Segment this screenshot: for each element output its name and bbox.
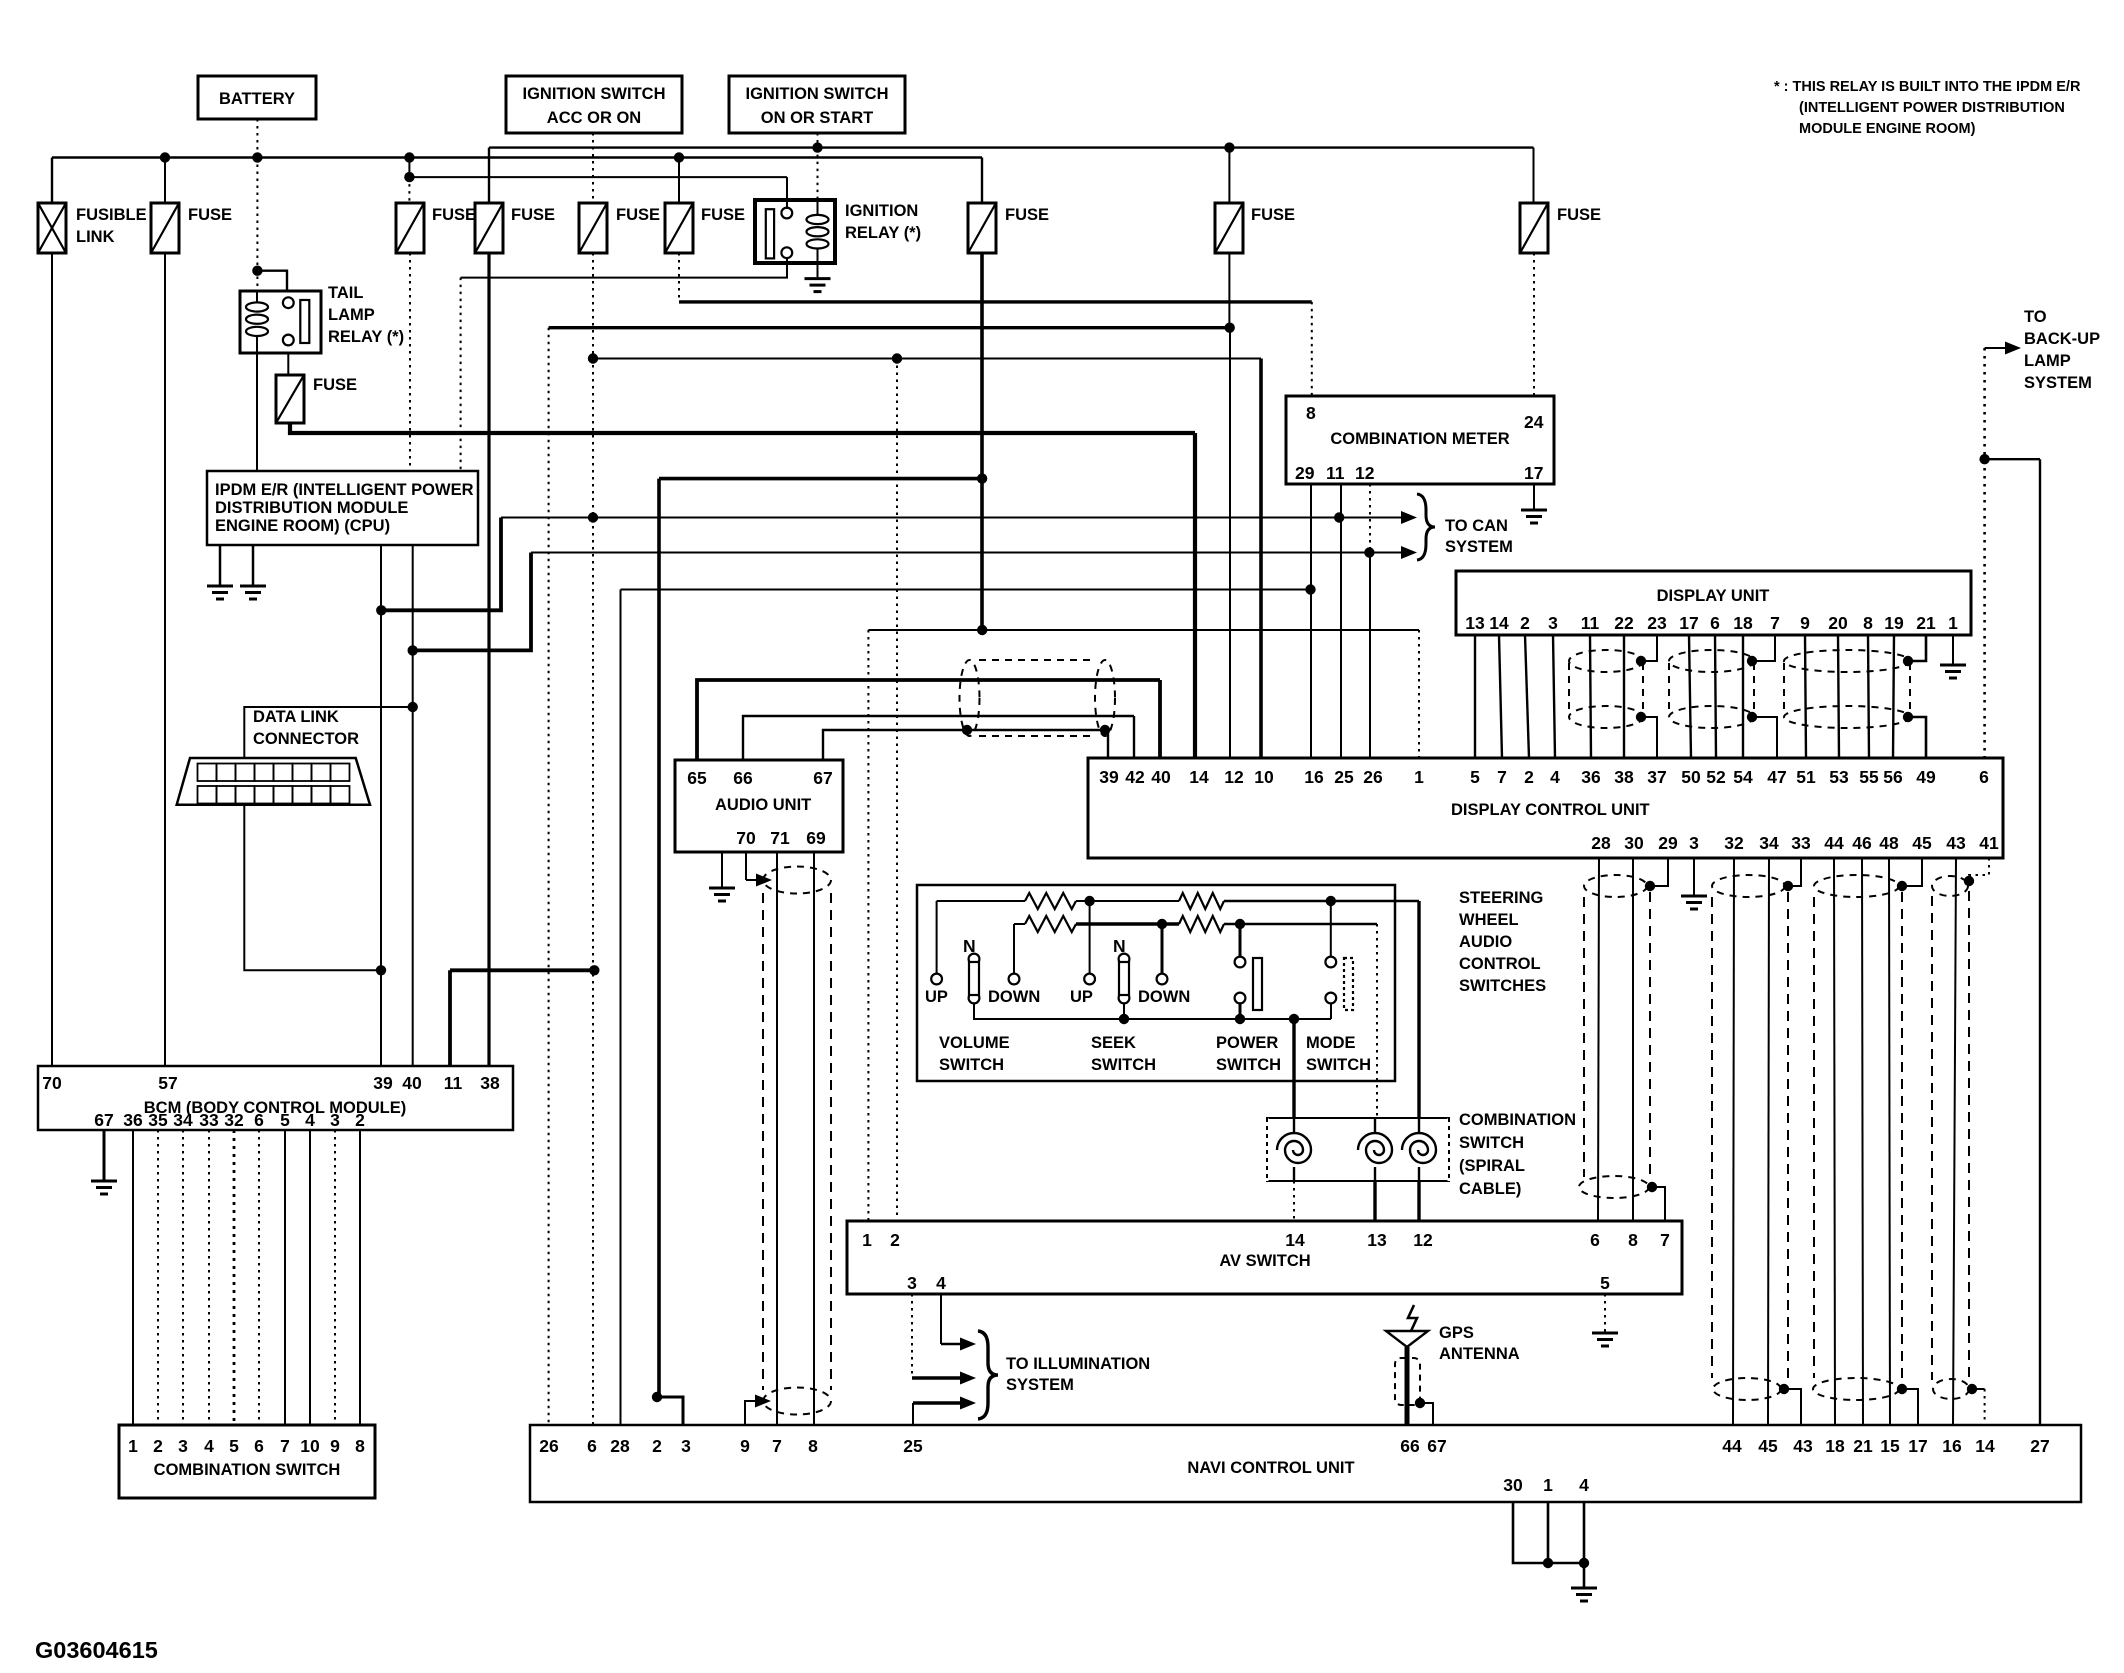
- spiral1 top stub: [1293, 1118, 1295, 1133]
- wire audio unit to ground: [721, 852, 723, 887]
- svg-text:LAMP: LAMP: [2024, 352, 2071, 370]
- svg-text:12: 12: [1355, 463, 1375, 483]
- shield dashed right audio pair: [830, 893, 832, 1390]
- line C: F7 to NAVI 26 run: [549, 326, 1230, 329]
- wire meter 17 to ground: [1533, 484, 1535, 509]
- svg-text:39: 39: [1099, 767, 1119, 787]
- svg-text:13: 13: [1367, 1230, 1387, 1250]
- shield dashed pair g4 left: [1931, 896, 1933, 1380]
- dotted wire backup to DCU pin 6: [1983, 348, 1986, 758]
- wire DCU 46 to NAVI 21: [1862, 858, 1863, 1425]
- svg-text:26: 26: [1363, 767, 1383, 787]
- svg-text:14: 14: [1975, 1436, 1995, 1456]
- svg-text:22: 22: [1614, 613, 1634, 633]
- svg-text:DOWN: DOWN: [1138, 988, 1190, 1006]
- ground below ignition relay: [805, 279, 831, 292]
- svg-text:FUSE: FUSE: [511, 206, 555, 224]
- wire tail relay contact to fuse: [287, 353, 289, 375]
- thick wire down to spiral cable 3: [1417, 901, 1420, 1118]
- svg-text:32: 32: [1724, 833, 1744, 853]
- svg-text:SWITCH: SWITCH: [1091, 1056, 1156, 1074]
- wire DCU 3 to ground: [1693, 858, 1695, 895]
- svg-text:45: 45: [1758, 1436, 1778, 1456]
- svg-text:FUSE: FUSE: [1005, 206, 1049, 224]
- svg-text:SWITCH: SWITCH: [1216, 1056, 1281, 1074]
- svg-text:7: 7: [1497, 767, 1507, 787]
- svg-text:17: 17: [1679, 613, 1698, 633]
- svg-text:28: 28: [1591, 833, 1611, 853]
- svg-text:NAVI CONTROL UNIT: NAVI CONTROL UNIT: [1187, 1459, 1354, 1477]
- wire bus to fusible link: [51, 158, 53, 204]
- svg-text:43: 43: [1793, 1436, 1813, 1456]
- GPS shield dashed box: [1395, 1358, 1420, 1405]
- bus line y148 (ignition ON/START feed): [489, 146, 1534, 148]
- wire meter 12 (dotted): [1369, 484, 1371, 553]
- thick wire down to DCU pin 10: [1259, 359, 1263, 759]
- fuse F6: [968, 203, 996, 253]
- svg-text:42: 42: [1125, 767, 1145, 787]
- wire FL to BCM pin 70: [51, 253, 53, 1066]
- svg-text:1: 1: [862, 1230, 872, 1250]
- svg-text:CONNECTOR: CONNECTOR: [253, 730, 359, 748]
- wire relay contact to y177 line: [786, 177, 788, 209]
- wire display 17 to DCU: [1689, 635, 1691, 758]
- wire DCU 34 to NAVI 45: [1768, 858, 1769, 1425]
- svg-text:IPDM E/R (INTELLIGENT POWER: IPDM E/R (INTELLIGENT POWER: [215, 481, 474, 499]
- wire bus to F5: [678, 158, 680, 204]
- wire spiral3 to AV pin 12: [1417, 1181, 1420, 1221]
- wire y148 to F7: [1228, 148, 1230, 203]
- wire relay coil to ground: [817, 263, 819, 279]
- wire ON/START to bus: [817, 133, 819, 148]
- svg-text:SWITCH: SWITCH: [1459, 1134, 1524, 1152]
- svg-text:TO ILLUMINATION: TO ILLUMINATION: [1006, 1355, 1150, 1373]
- svg-text:57: 57: [158, 1073, 177, 1093]
- svg-text:AUDIO: AUDIO: [1459, 933, 1512, 951]
- svg-text:44: 44: [1824, 833, 1844, 853]
- svg-text:8: 8: [355, 1436, 365, 1456]
- svg-text:8: 8: [1306, 403, 1316, 423]
- wire display 19 to DCU: [1893, 635, 1894, 758]
- svg-text:4: 4: [1579, 1475, 1589, 1495]
- svg-text:2: 2: [890, 1230, 900, 1250]
- wire tail relay coil to IPDM: [256, 353, 258, 471]
- shield ellipse above NAVI 44/45: [1713, 1378, 1781, 1400]
- wire F6 output down: [980, 253, 984, 630]
- shield ellipse audio bottom: [763, 1388, 831, 1415]
- svg-text:27: 27: [2030, 1436, 2049, 1456]
- wire F3 to BCM pin 38: [487, 253, 490, 1066]
- svg-text:AV SWITCH: AV SWITCH: [1219, 1252, 1310, 1270]
- wire DCU 43 to NAVI 16: [1953, 858, 1956, 1425]
- svg-text:17: 17: [1908, 1436, 1927, 1456]
- svg-text:18: 18: [1825, 1436, 1845, 1456]
- wire to volume UP contact: [936, 901, 938, 973]
- svg-text:ENGINE ROOM) (CPU): ENGINE ROOM) (CPU): [215, 517, 390, 535]
- svg-text:36: 36: [1581, 767, 1601, 787]
- svg-text:45: 45: [1912, 833, 1932, 853]
- svg-text:10: 10: [1254, 767, 1274, 787]
- wire down to AV switch pin 2: [896, 359, 898, 1222]
- wire bus to ignition relay contact: [409, 158, 787, 178]
- svg-text:5: 5: [1470, 767, 1480, 787]
- svg-text:3: 3: [907, 1273, 917, 1293]
- steering wheel audio control switches box: [917, 885, 1395, 1081]
- svg-text:41: 41: [1979, 833, 1999, 853]
- svg-text:30: 30: [1624, 833, 1644, 853]
- svg-text:5: 5: [280, 1110, 290, 1130]
- svg-text:DISPLAY CONTROL UNIT: DISPLAY CONTROL UNIT: [1451, 801, 1650, 819]
- wire meter 29 to DCU 16: [1310, 484, 1312, 758]
- svg-text:COMBINATION SWITCH: COMBINATION SWITCH: [154, 1461, 341, 1479]
- svg-text:UP: UP: [925, 988, 948, 1006]
- spiral3 top stub: [1418, 1118, 1420, 1133]
- wire BCM to comb switch x209 dotted: [208, 1130, 210, 1425]
- wire IPDM out to BCM pin 40: [412, 545, 414, 1066]
- wire bus to tail lamp relay: [256, 158, 258, 292]
- svg-text:MODE: MODE: [1306, 1034, 1356, 1052]
- svg-text:DATA LINK: DATA LINK: [253, 708, 339, 726]
- svg-text:66: 66: [1400, 1436, 1420, 1456]
- svg-text:9: 9: [740, 1436, 750, 1456]
- fuse F5: [665, 203, 693, 253]
- wire audio 70 to shield drain: [745, 852, 747, 880]
- svg-text:7: 7: [772, 1436, 782, 1456]
- wire display 23 to shield dot: [1641, 635, 1657, 661]
- svg-text:STEERING: STEERING: [1459, 889, 1543, 907]
- svg-text:24: 24: [1524, 412, 1544, 432]
- svg-text:44: 44: [1722, 1436, 1742, 1456]
- fuse F-ACC: [579, 203, 607, 253]
- svg-text:SWITCHES: SWITCHES: [1459, 977, 1546, 995]
- svg-text:3: 3: [681, 1436, 691, 1456]
- svg-text:21: 21: [1853, 1436, 1873, 1456]
- wire display 18 to DCU: [1742, 635, 1744, 758]
- svg-text:16: 16: [1942, 1436, 1962, 1456]
- svg-text:13: 13: [1465, 613, 1485, 633]
- thick wire BCM11 branch: [450, 968, 594, 972]
- fusible link FL: [38, 203, 66, 253]
- thick wire tail fuse to DCU pin 14 run: [290, 423, 1195, 433]
- svg-text:FUSE: FUSE: [1557, 206, 1601, 224]
- spiral2 bottom stub: [1374, 1167, 1376, 1181]
- mode switch: [1325, 957, 1336, 968]
- svg-text:43: 43: [1946, 833, 1966, 853]
- thick wire down to DCU pin 14: [1193, 433, 1197, 758]
- wire relay output to IPDM: [461, 257, 787, 278]
- seek switch: [1084, 974, 1095, 985]
- svg-text:4: 4: [305, 1110, 315, 1130]
- svg-text:11: 11: [1581, 613, 1600, 633]
- AV switch box: [847, 1221, 1682, 1294]
- wire to power switch top: [1239, 924, 1242, 956]
- ground DCU pin 3: [1681, 896, 1707, 909]
- thick wire NAVI2 feed to F6: [659, 477, 982, 481]
- ignition switch ON/START box: [729, 76, 905, 133]
- wire spiral2 to AV pin 13: [1373, 1181, 1376, 1221]
- svg-text:48: 48: [1879, 833, 1899, 853]
- svg-text:10: 10: [300, 1436, 320, 1456]
- svg-text:FUSE: FUSE: [432, 206, 476, 224]
- wire display 20 to DCU: [1838, 635, 1839, 758]
- svg-text:(INTELLIGENT POWER DISTRIBUTIO: (INTELLIGENT POWER DISTRIBUTION: [1799, 100, 2065, 116]
- shield dashed pair g3 left: [1813, 897, 1815, 1378]
- wire NAVI 30/1/4 common: [1513, 1502, 1584, 1563]
- svg-text:70: 70: [42, 1073, 62, 1093]
- thick wire audio 65 to DCU 40: [697, 680, 1160, 760]
- resistor row 1 wire: [937, 900, 1025, 902]
- wire down to NAVI pin 28: [620, 590, 622, 1426]
- svg-text:12: 12: [1224, 767, 1244, 787]
- wire to mode switch top: [1330, 901, 1332, 956]
- wire F7 to DCU pin 12: [1229, 328, 1231, 758]
- svg-text:32: 32: [224, 1110, 244, 1130]
- svg-text:33: 33: [199, 1110, 219, 1130]
- svg-text:FUSE: FUSE: [313, 376, 357, 394]
- wire line C down to NAVI pin 26: [548, 328, 550, 1425]
- wire display 7 to shield dot: [1752, 635, 1775, 661]
- svg-text:UP: UP: [1070, 988, 1093, 1006]
- svg-text:FUSE: FUSE: [701, 206, 745, 224]
- fuse F4: [396, 203, 424, 253]
- wire to volume DOWN contact: [1013, 924, 1015, 973]
- resistor R2: [1179, 893, 1224, 909]
- svg-text:COMBINATION METER: COMBINATION METER: [1330, 430, 1509, 448]
- wire DLC to BCM40 line: [244, 707, 412, 758]
- wire BCM to comb switch x234 bold dotted: [233, 1130, 236, 1425]
- svg-text:6: 6: [1979, 767, 1989, 787]
- GPS antenna: [1408, 1305, 1417, 1331]
- shield cylinder display 11/22: [1569, 650, 1643, 728]
- wire ACC switch to fuse: [592, 133, 594, 203]
- wire display 6 to DCU: [1715, 635, 1716, 758]
- svg-text:71: 71: [770, 828, 790, 848]
- svg-text:25: 25: [903, 1436, 923, 1456]
- svg-text:CONTROL: CONTROL: [1459, 955, 1541, 973]
- svg-text:G03604615: G03604615: [35, 1637, 158, 1663]
- wire shield dot to DCU 37: [1641, 717, 1657, 758]
- svg-text:34: 34: [1759, 833, 1779, 853]
- svg-text:36: 36: [123, 1110, 143, 1130]
- power switch: [1235, 957, 1246, 968]
- svg-text:COMBINATION: COMBINATION: [1459, 1111, 1576, 1129]
- svg-text:SWITCH: SWITCH: [939, 1056, 1004, 1074]
- svg-text:29: 29: [1295, 463, 1315, 483]
- resistor R3: [1025, 916, 1076, 932]
- svg-text:37: 37: [1647, 767, 1666, 787]
- svg-text:26: 26: [539, 1436, 559, 1456]
- svg-text:67: 67: [94, 1110, 113, 1130]
- svg-text:3: 3: [1689, 833, 1699, 853]
- wire F5 to line B: [678, 253, 680, 302]
- svg-text:TO: TO: [2024, 308, 2047, 326]
- wire AV 4 to illumination arrow: [940, 1294, 942, 1344]
- shield dashed left audio pair: [762, 893, 764, 1390]
- wire F4 to IPDM top: [409, 253, 411, 471]
- wire display 11 to DCU: [1590, 635, 1591, 758]
- svg-text:CABLE): CABLE): [1459, 1180, 1521, 1198]
- thick wire down to BCM pin 11: [448, 970, 452, 1066]
- svg-text:SYSTEM: SYSTEM: [2024, 374, 2092, 392]
- svg-text:BACK-UP: BACK-UP: [2024, 330, 2100, 348]
- svg-text:4: 4: [1550, 767, 1560, 787]
- wire down to AV switch pin 1: [867, 630, 869, 1221]
- svg-text:ON OR START: ON OR START: [761, 109, 873, 127]
- svg-text:50: 50: [1681, 767, 1701, 787]
- wire resistor row1 to spiral 3: [1224, 900, 1419, 903]
- wire DCU 32 to NAVI 44: [1733, 858, 1734, 1425]
- shield ellipse above AV 6/8: [1579, 1176, 1649, 1198]
- ground AV pin 5: [1592, 1333, 1618, 1346]
- wire DLC to BCM39 line: [244, 805, 381, 971]
- spiral symbol 2: [1358, 1133, 1392, 1163]
- svg-text:20: 20: [1828, 613, 1848, 633]
- spiral symbol 1: [1277, 1133, 1311, 1163]
- ground audio unit: [709, 888, 735, 901]
- fuse below tail lamp relay: [276, 375, 304, 423]
- svg-text:IGNITION SWITCH: IGNITION SWITCH: [523, 85, 666, 103]
- svg-text:40: 40: [402, 1073, 422, 1093]
- svg-text:29: 29: [1658, 833, 1678, 853]
- ignition relay (*): [755, 200, 835, 263]
- svg-text:67: 67: [813, 768, 832, 788]
- wire shield dot to backup dotted: [1972, 1388, 1985, 1390]
- svg-text:6: 6: [254, 1110, 264, 1130]
- wire ACC fuse down to NAVI pin 6: [592, 253, 594, 1425]
- wire audio 66 to DCU 42: [743, 716, 1134, 760]
- shield cylinder display 17/6/18: [1669, 650, 1754, 728]
- dotted wire down to spiral cable 2: [1376, 924, 1378, 1118]
- common bottom wire: [974, 1003, 1331, 1019]
- fuse F2: [151, 203, 179, 253]
- dotted wire to NAVI 14: [1984, 1389, 1986, 1425]
- svg-text:6: 6: [1710, 613, 1720, 633]
- svg-text:SWITCH: SWITCH: [1306, 1056, 1371, 1074]
- wire BCM to comb switch x158 dotted: [157, 1130, 159, 1425]
- svg-text:FUSIBLE: FUSIBLE: [76, 206, 147, 224]
- wire display pin 1 to ground: [1952, 635, 1954, 664]
- BCM box: [38, 1066, 513, 1130]
- fuse F7: [1215, 203, 1243, 253]
- svg-text:9: 9: [1800, 613, 1810, 633]
- wire to F4: [408, 177, 410, 203]
- resistor row 2 wire: [1014, 923, 1025, 925]
- resistor R1: [1025, 893, 1076, 909]
- wire DCU 41 to shield dot: [1969, 858, 1989, 881]
- wire audio 71 to NAVI 7: [776, 852, 778, 1425]
- shield ellipse audio top: [763, 867, 831, 894]
- wire DCU 28 to AV 6: [1598, 858, 1599, 1221]
- wire BCM to comb switch x133: [132, 1130, 134, 1425]
- CAN line 2: [531, 552, 1403, 554]
- svg-text:AUDIO UNIT: AUDIO UNIT: [715, 796, 811, 814]
- svg-text:5: 5: [229, 1436, 239, 1456]
- svg-text:30: 30: [1503, 1475, 1523, 1495]
- wire down to NAVI pin 27: [2039, 459, 2041, 1425]
- shield ellipse DCU 28/30: [1584, 875, 1647, 897]
- wire NAVI28 / meter29 line: [621, 589, 1311, 591]
- wire audio 67 to DCU 39: [823, 730, 1108, 760]
- svg-text:TO CAN: TO CAN: [1445, 517, 1508, 535]
- svg-text:54: 54: [1733, 767, 1753, 787]
- svg-text:FUSE: FUSE: [1251, 206, 1295, 224]
- svg-text:40: 40: [1151, 767, 1171, 787]
- battery box: [198, 76, 316, 119]
- line ACC branch to DCU pin 10: [593, 358, 1261, 360]
- svg-text:47: 47: [1767, 767, 1786, 787]
- svg-text:IGNITION: IGNITION: [845, 202, 918, 220]
- svg-text:2: 2: [652, 1436, 662, 1456]
- thick wire mode common to spiral cable 1: [1292, 1019, 1295, 1118]
- wire bus corner to F6: [981, 158, 983, 204]
- svg-text:1: 1: [1543, 1475, 1553, 1495]
- shield dashed pair g1 left: [1583, 897, 1585, 1177]
- svg-text:14: 14: [1489, 613, 1509, 633]
- wire AV 5 to ground: [1604, 1294, 1606, 1332]
- wire resistor row2 to spiral 2: [1224, 923, 1377, 926]
- wire audio 69 to NAVI 8: [813, 852, 815, 1425]
- svg-text:33: 33: [1791, 833, 1811, 853]
- wire shield dot to DCU 47: [1752, 717, 1777, 758]
- svg-text:WHEEL: WHEEL: [1459, 911, 1519, 929]
- svg-text:LINK: LINK: [76, 228, 115, 246]
- svg-text:TAIL: TAIL: [328, 284, 363, 302]
- wire IPDM to ground 1: [219, 545, 222, 586]
- wire DCU 33 to shield dot: [1788, 858, 1801, 886]
- svg-text:28: 28: [610, 1436, 630, 1456]
- svg-text:67: 67: [1427, 1436, 1446, 1456]
- svg-text:MODULE ENGINE ROOM): MODULE ENGINE ROOM): [1799, 121, 1976, 137]
- svg-text:18: 18: [1733, 613, 1753, 633]
- NAVI control unit box: [530, 1425, 2081, 1502]
- wire F8 to meter pin 24: [1533, 253, 1535, 396]
- svg-text:2: 2: [1520, 613, 1530, 633]
- wire DCU 48 to NAVI 15: [1889, 858, 1890, 1425]
- wire display 14 to DCU: [1499, 635, 1502, 758]
- svg-text:19: 19: [1884, 613, 1904, 633]
- svg-text:16: 16: [1304, 767, 1324, 787]
- svg-text:(SPIRAL: (SPIRAL: [1459, 1157, 1525, 1175]
- svg-text:8: 8: [1628, 1230, 1638, 1250]
- shield ellipse DCU 44/46/48: [1814, 875, 1899, 897]
- svg-text:49: 49: [1916, 767, 1936, 787]
- wire meter 12 to DCU 26: [1369, 553, 1371, 759]
- wire display 22 to DCU: [1623, 635, 1625, 758]
- IPDM E/R box: [207, 471, 478, 545]
- wire jog to NAVI pin 3: [657, 1397, 683, 1425]
- ground BCM pin 67: [91, 1181, 117, 1194]
- wire DCU 45 to shield dot: [1902, 858, 1922, 886]
- wire IPDM to ground 2: [252, 545, 255, 586]
- svg-text:3: 3: [330, 1110, 340, 1130]
- svg-text:* : THIS RELAY IS BUILT INTO T: * : THIS RELAY IS BUILT INTO THE IPDM E/…: [1774, 79, 2081, 95]
- svg-text:14: 14: [1285, 1230, 1305, 1250]
- ground IPDM 1: [207, 586, 233, 599]
- wire DCU 44 to NAVI 18: [1834, 858, 1835, 1425]
- shield dashed pair g4 right: [1968, 891, 1970, 1380]
- svg-text:38: 38: [480, 1073, 500, 1093]
- wire display 3 to DCU: [1553, 635, 1555, 758]
- svg-text:70: 70: [736, 828, 756, 848]
- volume switch: [931, 974, 942, 985]
- svg-text:2: 2: [1524, 767, 1534, 787]
- resistor R4: [1179, 916, 1224, 932]
- svg-text:1: 1: [1948, 613, 1958, 633]
- svg-text:1: 1: [128, 1436, 138, 1456]
- display control unit box: [1088, 758, 2003, 858]
- svg-text:9: 9: [330, 1436, 340, 1456]
- svg-text:5: 5: [1600, 1273, 1610, 1293]
